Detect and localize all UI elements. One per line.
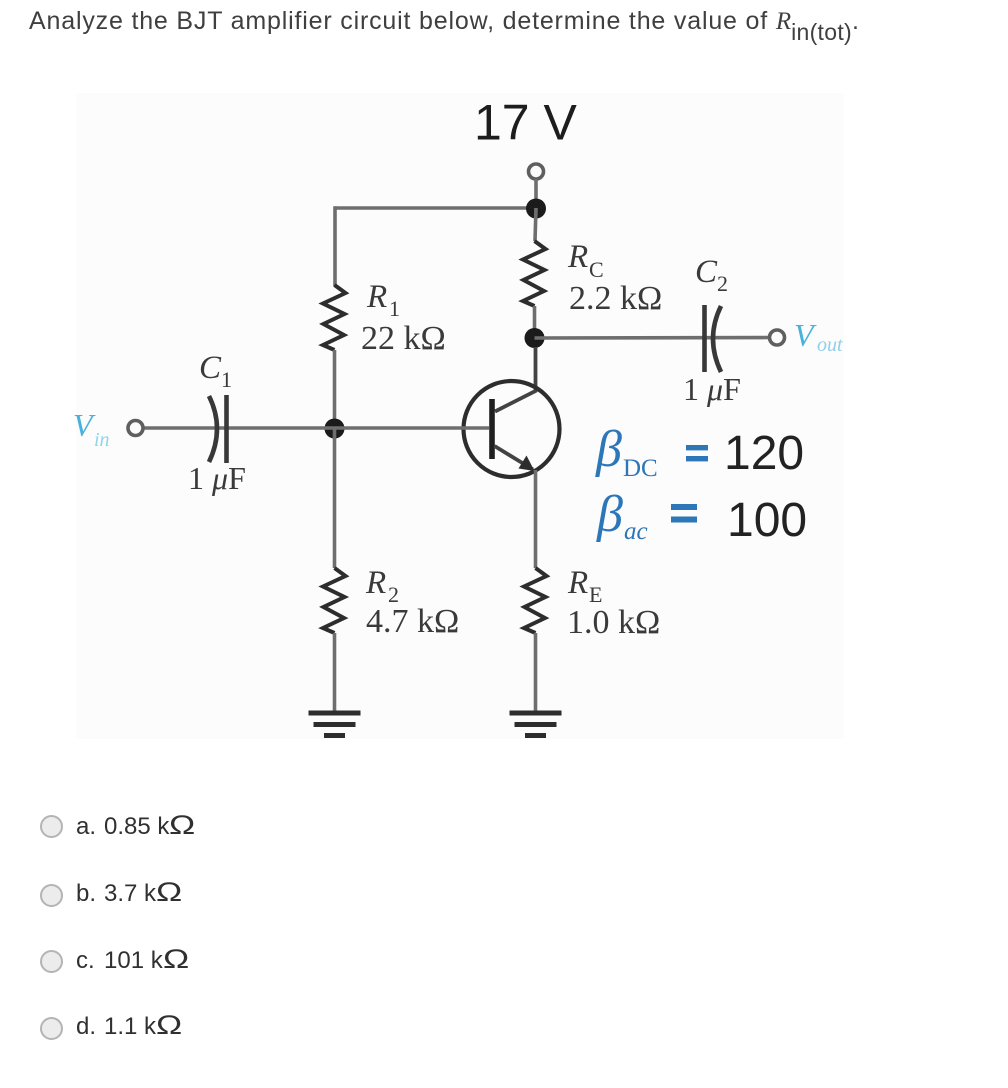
svg-text:100: 100 [727, 494, 807, 547]
question title [29, 7, 860, 36]
svg-text:2.2 kΩ: 2.2 kΩ [569, 280, 662, 317]
svg-text:4.7 kΩ: 4.7 kΩ [366, 603, 459, 640]
svg-text:β: β [596, 486, 623, 543]
input terminal circle [128, 421, 143, 436]
option a text [76, 810, 190, 841]
wire R2 to ground [333, 633, 337, 712]
node base junction dot [325, 419, 345, 439]
circuit image background panel [76, 93, 844, 739]
ground (right) [510, 713, 562, 736]
resistor R2 [323, 568, 346, 633]
option c text [76, 944, 183, 975]
option d text [76, 1010, 176, 1041]
radio button c [40, 950, 63, 973]
radio button b [40, 884, 63, 907]
svg-text:R: R [365, 565, 386, 601]
radio button a [40, 815, 63, 838]
wire terminal to top node [534, 179, 538, 208]
supply terminal circle [529, 164, 544, 179]
wire emitter down to RE [534, 470, 538, 568]
wire base node down to R2 [333, 428, 337, 568]
radio button d [40, 1017, 63, 1040]
svg-text:1: 1 [389, 296, 400, 321]
svg-text:C: C [199, 350, 222, 386]
svg-text:β: β [595, 421, 622, 478]
capacitor C1 plates [209, 395, 227, 463]
ground (left) [309, 713, 361, 736]
transistor Q1 circle [464, 381, 560, 477]
resistor R1 [323, 285, 346, 350]
wire collector vertical into transistor [495, 347, 536, 412]
svg-text:120: 120 [724, 427, 804, 480]
resistor RC [523, 241, 546, 306]
svg-text:22 kΩ: 22 kΩ [361, 320, 446, 357]
svg-text:R: R [567, 565, 588, 601]
svg-text:R: R [567, 239, 588, 275]
svg-text:in: in [94, 429, 110, 451]
svg-text:1 μF: 1 μF [683, 371, 741, 407]
node top junction dot [526, 199, 546, 219]
transistor base bar [489, 399, 495, 459]
wire RE to ground [534, 633, 538, 712]
node collector junction dot [525, 328, 545, 348]
svg-text:17 V: 17 V [474, 95, 578, 151]
svg-text:out: out [817, 334, 843, 356]
transistor emitter lead with arrow [495, 446, 534, 470]
svg-text:1 μF: 1 μF [188, 460, 246, 496]
svg-text:C: C [589, 257, 604, 282]
svg-text:1: 1 [221, 367, 232, 392]
wire RC to collector node [533, 306, 537, 338]
wire top node to RC [535, 208, 536, 241]
wire collector node to output terminal [535, 336, 770, 340]
capacitor C2 plates [705, 305, 722, 372]
wire top horizontal [335, 206, 536, 210]
wire left column down to R1 [333, 206, 337, 286]
svg-text:DC: DC [623, 455, 658, 482]
option b text [76, 877, 176, 908]
wire R1 bottom to base node [333, 350, 337, 428]
svg-text:1.0 kΩ: 1.0 kΩ [567, 604, 660, 641]
svg-text:C: C [695, 254, 718, 290]
resistor RE [524, 568, 547, 633]
output terminal circle [770, 330, 785, 345]
svg-text:ac: ac [624, 518, 648, 545]
svg-text:2: 2 [717, 271, 728, 296]
svg-text:R: R [366, 279, 387, 315]
wire base (from input through C1 to base bar) [143, 426, 489, 430]
